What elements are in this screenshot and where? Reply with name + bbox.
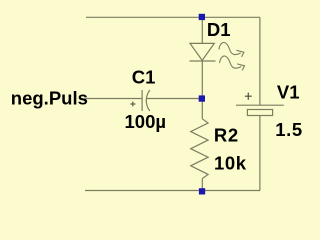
label V1 (277, 82, 300, 103)
label C1 (132, 66, 156, 87)
svg-text:R2: R2 (214, 125, 239, 146)
wire: input from neg.Puls to C1 (84, 98, 142, 100)
wire: D1 cathode to mid node (201, 61, 203, 99)
svg-text:V1: V1 (277, 82, 300, 103)
wire: top rail to D1 anode (201, 17, 203, 43)
wire: bottom rail (85, 190, 260, 192)
resistor R2 (191, 119, 208, 179)
wire: R2 to bottom rail (201, 179, 203, 191)
label neg.Puls (11, 88, 88, 109)
label D1 (207, 19, 231, 40)
value 100µ (125, 111, 167, 132)
svg-text:C1: C1 (132, 66, 156, 87)
wire: right rail lower (259, 116, 261, 191)
wire: mid node to R2 (201, 99, 203, 119)
junction node: R2 / bottom rail (199, 188, 205, 194)
junction node: C1 / D1 / R2 (199, 95, 205, 101)
wire: top rail (86, 16, 260, 18)
wire: C1 to mid node (146, 98, 202, 100)
LED light arrow lower (220, 56, 245, 71)
value 10k (214, 153, 247, 174)
svg-text:neg.Puls: neg.Puls (11, 88, 88, 109)
svg-text:100µ: 100µ (125, 111, 167, 132)
svg-text:1.5: 1.5 (275, 119, 303, 140)
battery plus sign (245, 93, 252, 100)
wire: right rail upper (259, 17, 261, 105)
svg-text:10k: 10k (214, 153, 247, 174)
battery V1 (236, 105, 284, 115)
LED light arrow upper (219, 42, 244, 57)
junction node: top rail / D1 branch (199, 14, 205, 20)
label R2 (214, 125, 239, 146)
capacitor C1 (142, 90, 150, 111)
capacitor plus sign (130, 102, 135, 107)
value 1.5 (275, 119, 303, 140)
LED D1 (190, 43, 216, 61)
svg-text:D1: D1 (207, 19, 231, 40)
